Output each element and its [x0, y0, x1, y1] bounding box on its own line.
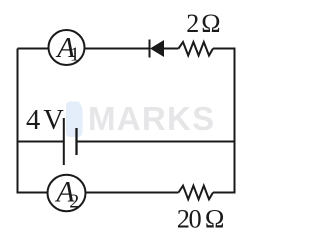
svg-text:2: 2 — [69, 191, 79, 213]
svg-text:20: 20 — [177, 204, 202, 234]
svg-text:Ω: Ω — [201, 9, 220, 38]
svg-text:Ω: Ω — [205, 205, 225, 234]
svg-text:2: 2 — [186, 9, 199, 38]
svg-text:1: 1 — [70, 44, 80, 66]
svg-text:4: 4 — [26, 105, 40, 136]
svg-text:MARKS: MARKS — [88, 100, 216, 137]
svg-text:V: V — [43, 105, 64, 136]
